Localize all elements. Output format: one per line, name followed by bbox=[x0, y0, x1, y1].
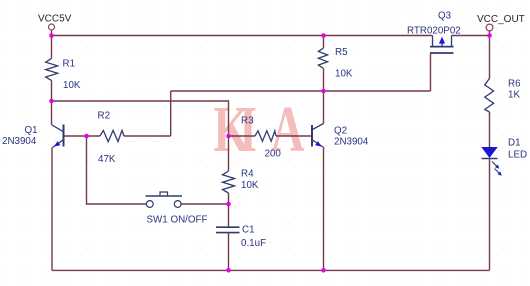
svg-text:Q1: Q1 bbox=[25, 125, 38, 136]
transistor Q1 bbox=[52, 125, 64, 148]
svg-text:I: I bbox=[239, 93, 257, 166]
svg-text:R5: R5 bbox=[335, 47, 348, 58]
resistor R1 bbox=[46, 58, 58, 80]
junction SW1/R4/C1 node bbox=[226, 202, 231, 207]
wire SW1 branch bbox=[87, 136, 229, 204]
resistor R2 bbox=[100, 130, 124, 141]
wire R5 leads bbox=[323, 36, 325, 92]
wire D1 cathode down bbox=[489, 159, 491, 271]
junction Q2 emitter rail bbox=[321, 268, 326, 273]
svg-text:RTR020P02: RTR020P02 bbox=[407, 26, 461, 37]
wire Q1 base to junction bbox=[65, 135, 87, 137]
wire R3 leads bbox=[229, 135, 312, 137]
wire R6 leads bbox=[489, 36, 491, 148]
svg-text:0.1uF: 0.1uF bbox=[241, 238, 266, 249]
junction VCC5V rail bbox=[49, 33, 54, 38]
resistor R3 bbox=[255, 131, 276, 141]
wire top rail VCC5V bbox=[52, 31, 490, 36]
svg-text:2N3904: 2N3904 bbox=[334, 137, 369, 148]
wire R2 leads bbox=[87, 135, 171, 137]
svg-text:1K: 1K bbox=[508, 90, 520, 101]
watermark KIA bbox=[214, 93, 305, 166]
wire R1 leads bbox=[51, 36, 53, 102]
junction R1 bottom bbox=[49, 99, 54, 104]
wire Q1 collector bbox=[51, 101, 53, 125]
junction R5 top bbox=[321, 33, 326, 38]
svg-text:R2: R2 bbox=[98, 110, 111, 121]
wire gate net y91 bbox=[171, 54, 431, 92]
svg-text:D1: D1 bbox=[508, 138, 521, 149]
svg-text:10K: 10K bbox=[241, 180, 259, 191]
svg-text:R6: R6 bbox=[508, 79, 521, 90]
resistor R4 bbox=[223, 171, 235, 193]
wire Q2 emitter down bbox=[323, 147, 325, 270]
junction Q1 base node bbox=[84, 134, 89, 139]
svg-text:10K: 10K bbox=[63, 80, 81, 91]
resistor R6 bbox=[485, 78, 494, 112]
switch SW1 bbox=[146, 192, 183, 207]
wire Q2 collector bbox=[323, 91, 325, 124]
junction gate net node bbox=[321, 89, 326, 94]
svg-text:C1: C1 bbox=[242, 225, 255, 236]
svg-text:10K: 10K bbox=[335, 69, 353, 80]
svg-text:Q3: Q3 bbox=[438, 11, 452, 22]
resistor R5 bbox=[318, 48, 327, 69]
diode D1 LED bbox=[481, 147, 502, 176]
svg-text:SW1 ON/OFF: SW1 ON/OFF bbox=[147, 215, 208, 226]
wire Q1 emitter down bbox=[51, 148, 53, 271]
junction C1 bottom rail bbox=[226, 268, 231, 273]
svg-text:2N3904: 2N3904 bbox=[2, 136, 37, 147]
wire bottom rail bbox=[52, 269, 490, 271]
port VCC_OUT bbox=[486, 24, 493, 31]
port VCC5V bbox=[49, 24, 55, 30]
svg-text:R3: R3 bbox=[241, 116, 254, 127]
transistor Q2 bbox=[312, 124, 324, 148]
svg-text:R4: R4 bbox=[241, 169, 254, 180]
capacitor C1 bbox=[216, 227, 240, 232]
svg-text:VCC_OUT: VCC_OUT bbox=[477, 14, 525, 25]
wire C1 leads bbox=[228, 204, 230, 270]
junction R3/R4 node bbox=[226, 134, 231, 139]
svg-text:Q2: Q2 bbox=[334, 125, 347, 136]
svg-text:R1: R1 bbox=[63, 58, 76, 69]
svg-text:VCC5V: VCC5V bbox=[38, 14, 72, 25]
wire net R1-R3/R4 row bbox=[52, 101, 229, 136]
svg-text:200: 200 bbox=[265, 149, 282, 160]
svg-text:LED: LED bbox=[508, 150, 527, 161]
wire riser R2 to gate net bbox=[170, 91, 172, 136]
svg-text:47K: 47K bbox=[98, 154, 116, 165]
junction VCC_OUT bbox=[487, 33, 492, 38]
mosfet Q3 bbox=[430, 36, 454, 54]
wire R4 leads bbox=[228, 136, 230, 204]
